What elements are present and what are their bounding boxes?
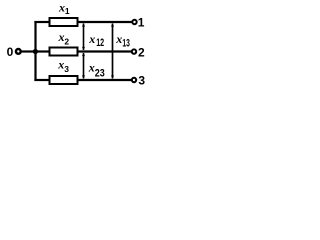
svg-text:0: 0 <box>7 45 14 59</box>
terminal 1 <box>132 20 136 24</box>
terminal 3 <box>132 78 136 82</box>
label x23 <box>88 61 105 80</box>
wire branch 1 right <box>78 21 133 23</box>
wire branch 3 left <box>34 79 49 81</box>
dimension line x12 <box>82 23 85 50</box>
resistor x2 <box>50 48 78 56</box>
label x12 <box>88 32 104 49</box>
resistor x3 <box>50 76 78 84</box>
svg-text:23: 23 <box>95 67 105 79</box>
svg-text:2: 2 <box>64 36 69 46</box>
terminal 0 <box>16 49 21 54</box>
svg-text:x: x <box>88 61 95 75</box>
wire branch 2 left <box>36 50 50 52</box>
wire from terminal 0 to bus <box>21 50 35 52</box>
junction dot node 0 <box>33 49 38 54</box>
svg-text:x: x <box>115 32 122 46</box>
dimension line x13 <box>111 23 114 79</box>
label x1 <box>58 1 70 17</box>
label x2 <box>58 30 70 46</box>
terminal 2 <box>132 49 136 53</box>
svg-text:x: x <box>88 32 95 46</box>
label x3 <box>57 58 69 74</box>
wire branch 3 right <box>78 79 132 81</box>
resistor x1 <box>50 18 78 26</box>
svg-text:3: 3 <box>64 64 69 74</box>
svg-text:2: 2 <box>138 45 145 59</box>
svg-text:12: 12 <box>96 37 104 49</box>
svg-text:1: 1 <box>138 16 145 30</box>
wire branch 1 left <box>34 21 49 23</box>
label x13 <box>115 32 130 49</box>
svg-text:1: 1 <box>65 6 70 16</box>
bus wire vertical <box>34 21 36 81</box>
svg-text:3: 3 <box>138 74 145 88</box>
dimension line x23 <box>82 53 85 79</box>
wire branch 2 right <box>78 50 132 52</box>
svg-text:13: 13 <box>122 37 129 49</box>
